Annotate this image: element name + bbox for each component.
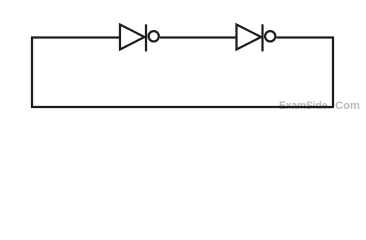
wire U2 output to right vertical: [276, 36, 334, 38]
inverter U1 output bar: [145, 24, 147, 51]
wire input to inverter U1: [31, 36, 121, 38]
wire feedback left vertical: [31, 38, 33, 108]
wire feedback bottom horizontal: [31, 106, 334, 108]
svg-text:ExamSide.Com: ExamSide.Com: [279, 100, 360, 112]
inverter U2 bubble: [265, 31, 275, 41]
inverter U1 triangle: [120, 25, 145, 50]
wire feedback right vertical: [332, 38, 334, 108]
wire U1 output to U2 input: [160, 36, 237, 38]
inverter U2 triangle: [237, 25, 262, 50]
inverter U2 output bar: [261, 24, 263, 51]
inverter U1 bubble: [149, 31, 159, 41]
